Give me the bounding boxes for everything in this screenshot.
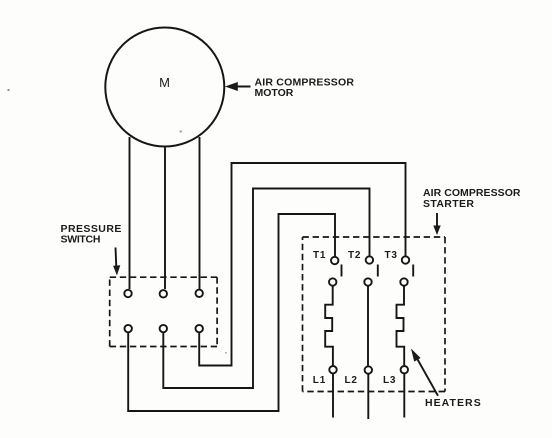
- svg-text:L3: L3: [383, 375, 396, 386]
- svg-text:HEATERS: HEATERS: [425, 397, 482, 409]
- svg-text:M: M: [159, 75, 170, 90]
- svg-text:SWITCH: SWITCH: [61, 233, 101, 245]
- svg-text:T1: T1: [313, 250, 326, 261]
- svg-text:MOTOR: MOTOR: [255, 87, 294, 99]
- svg-text:L1: L1: [313, 375, 326, 386]
- svg-text:T3: T3: [385, 250, 398, 261]
- svg-text:STARTER: STARTER: [423, 198, 474, 210]
- svg-text:T2: T2: [348, 250, 361, 261]
- svg-text:L2: L2: [345, 375, 358, 386]
